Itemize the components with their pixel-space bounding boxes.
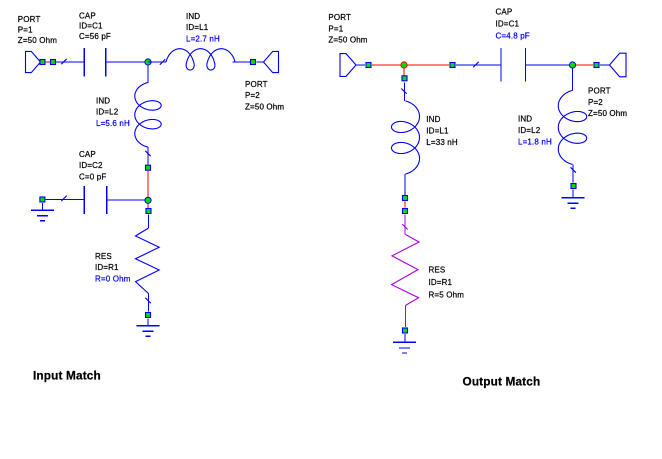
svg-text:C=4.8 pF: C=4.8 pF — [496, 31, 530, 40]
node C junction (selected, red) — [401, 62, 407, 68]
ground symbol below R1 — [137, 319, 160, 337]
wire to port P2 (output) — [600, 64, 610, 66]
node port P1 pin (output) — [366, 63, 371, 68]
resistor R1 label (output match) — [429, 266, 465, 300]
port P1 symbol (output match) — [340, 54, 356, 77]
red wire between nodes — [404, 202, 406, 208]
svg-text:Z=50 Ohm: Z=50 Ohm — [245, 102, 284, 111]
port P2 label (output match) — [588, 87, 627, 118]
svg-text:PORT: PORT — [245, 80, 268, 89]
svg-text:ID=C1: ID=C1 — [496, 19, 520, 28]
svg-text:L=5.6 nH: L=5.6 nH — [96, 119, 130, 128]
node L1 pin 1 (output) — [402, 76, 407, 81]
svg-text:ID=R1: ID=R1 — [95, 263, 119, 272]
svg-text:Z=50 Ohm: Z=50 Ohm — [588, 109, 627, 118]
node R1 pin 2 (output) — [403, 328, 408, 333]
wire ground node to capacitor C2 with tick — [46, 196, 85, 201]
svg-text:L=1.8 nH: L=1.8 nH — [518, 138, 552, 147]
node C1 pin 1 — [51, 60, 56, 65]
inductor L2 label — [96, 96, 130, 127]
wire node A down to inductor L2 — [147, 65, 149, 83]
capacitor C1 label (output match) — [496, 7, 530, 40]
wire down to inductor L1 with tick (output) — [401, 83, 406, 102]
svg-text:IND: IND — [426, 115, 440, 124]
svg-text:ID=C2: ID=C2 — [79, 161, 103, 170]
svg-text:RES: RES — [95, 252, 112, 261]
capacitor C1 — [84, 48, 105, 77]
port P1 label (output match) — [328, 13, 367, 44]
wire C2 to node B — [107, 199, 145, 201]
svg-text:C=56 pF: C=56 pF — [79, 32, 111, 41]
port P2 symbol — [264, 51, 279, 72]
port P1 label (input match) — [18, 15, 57, 45]
svg-text:R=0 Ohm: R=0 Ohm — [95, 274, 131, 283]
node L1 pin 2 (output) — [403, 196, 408, 201]
inductor L2 (output match) — [558, 90, 586, 164]
node L2 pin 2 (output) — [571, 184, 576, 189]
svg-text:ID=L1: ID=L1 — [186, 23, 209, 32]
wire C1 to node A — [106, 61, 148, 63]
svg-text:PORT: PORT — [328, 13, 351, 22]
svg-text:PORT: PORT — [18, 15, 41, 24]
node at port P1 pin — [40, 60, 45, 65]
resistor R1 (input match) — [136, 228, 160, 294]
capacitor C2 — [84, 186, 107, 214]
wire R1 to ground node with tick — [145, 294, 150, 312]
inductor L2 label (output match) — [518, 115, 552, 147]
capacitor C2 label — [79, 150, 106, 181]
svg-text:ID=R1: ID=R1 — [429, 278, 453, 287]
svg-text:IND: IND — [518, 115, 532, 124]
svg-text:Z=50 Ohm: Z=50 Ohm — [328, 36, 367, 45]
svg-text:Input Match: Input Match — [33, 369, 101, 383]
wire node D down to inductor L2 (output) — [572, 68, 574, 91]
svg-text:R=5 Ohm: R=5 Ohm — [429, 290, 465, 299]
ground symbol at C2 — [31, 203, 54, 221]
svg-text:P=2: P=2 — [245, 91, 260, 100]
resistor R1 (output match) — [392, 235, 419, 306]
node C1 pin (output) — [450, 63, 455, 68]
wire node to resistor R1 — [148, 215, 150, 229]
svg-text:PORT: PORT — [588, 87, 611, 96]
svg-text:C=0 pF: C=0 pF — [79, 172, 106, 181]
red wire node D to port P2 node — [576, 64, 593, 66]
ground symbol below L2 (output) — [562, 190, 585, 209]
magenta wire R1 to ground node — [404, 306, 406, 328]
svg-text:ID=L1: ID=L1 — [426, 127, 449, 136]
node port P2 pin (output) — [594, 63, 599, 68]
inductor L1 (output match) — [392, 101, 420, 174]
magenta wire to resistor R1 with tick — [402, 215, 407, 235]
wire port P1 to C1 pin (red segment) — [45, 61, 51, 63]
wire port P1 to node — [356, 64, 365, 66]
wire C1 to node D — [525, 64, 569, 66]
node A junction — [145, 59, 151, 65]
wire L1 to node (output) — [404, 174, 406, 195]
svg-text:Z=50 Ohm: Z=50 Ohm — [18, 36, 57, 45]
red wire node C down — [403, 68, 405, 76]
svg-text:ID=L2: ID=L2 — [518, 126, 541, 135]
node R1 pin 1 — [146, 209, 151, 214]
node R1 pin 1 (output) — [403, 209, 408, 214]
inductor L1 label (output match) — [426, 115, 458, 147]
red wire node C to L1 branch node — [408, 64, 450, 66]
svg-text:ID=C1: ID=C1 — [79, 22, 103, 31]
wire L2 to ground node with tick (output) — [571, 165, 576, 183]
wire to capacitor C1 with tick (output) — [456, 62, 501, 67]
svg-text:L=33 nH: L=33 nH — [426, 138, 458, 147]
red wire L2 node to node B — [147, 171, 149, 197]
svg-text:P=1: P=1 — [328, 24, 343, 33]
svg-text:P=1: P=1 — [18, 26, 33, 35]
inductor L1 label — [186, 12, 220, 43]
port P1 symbol — [26, 51, 41, 72]
port P2 symbol (output match) — [610, 53, 627, 77]
svg-text:CAP: CAP — [79, 150, 96, 159]
port P2 label (input match) — [245, 80, 284, 111]
ground symbol below R1 (output) — [393, 334, 416, 353]
svg-text:ID=L2: ID=L2 — [96, 108, 119, 117]
capacitor C1 (output match) — [501, 48, 525, 81]
svg-text:Output Match: Output Match — [463, 374, 541, 388]
red wire to node C — [372, 64, 401, 66]
inductor L2 — [135, 83, 161, 148]
node L2 pin 2 — [146, 165, 151, 170]
wire node to port P2 — [257, 61, 265, 63]
svg-text:CAP: CAP — [79, 12, 96, 21]
wire L2 to node with tick — [145, 147, 150, 165]
wire node A to inductor L1 with tick — [148, 59, 166, 64]
wire to capacitor C1 with tick — [56, 59, 84, 64]
node C2 pin 1 — [40, 197, 45, 202]
svg-text:IND: IND — [186, 12, 200, 21]
node D junction — [569, 62, 575, 68]
svg-text:CAP: CAP — [496, 7, 513, 16]
node B junction — [145, 197, 151, 203]
svg-text:P=2: P=2 — [588, 98, 603, 107]
svg-text:RES: RES — [429, 266, 446, 275]
node port P2 pin — [251, 60, 256, 65]
red wire node B to R1 node — [147, 204, 149, 209]
svg-text:IND: IND — [96, 96, 110, 105]
capacitor C1 label — [79, 12, 111, 41]
inductor L1 — [166, 49, 235, 70]
node R1 pin 2 — [146, 313, 151, 318]
resistor R1 label (input match) — [95, 252, 131, 283]
svg-text:L=2.7 nH: L=2.7 nH — [186, 34, 220, 43]
wire L1 to port P2 — [232, 61, 250, 63]
